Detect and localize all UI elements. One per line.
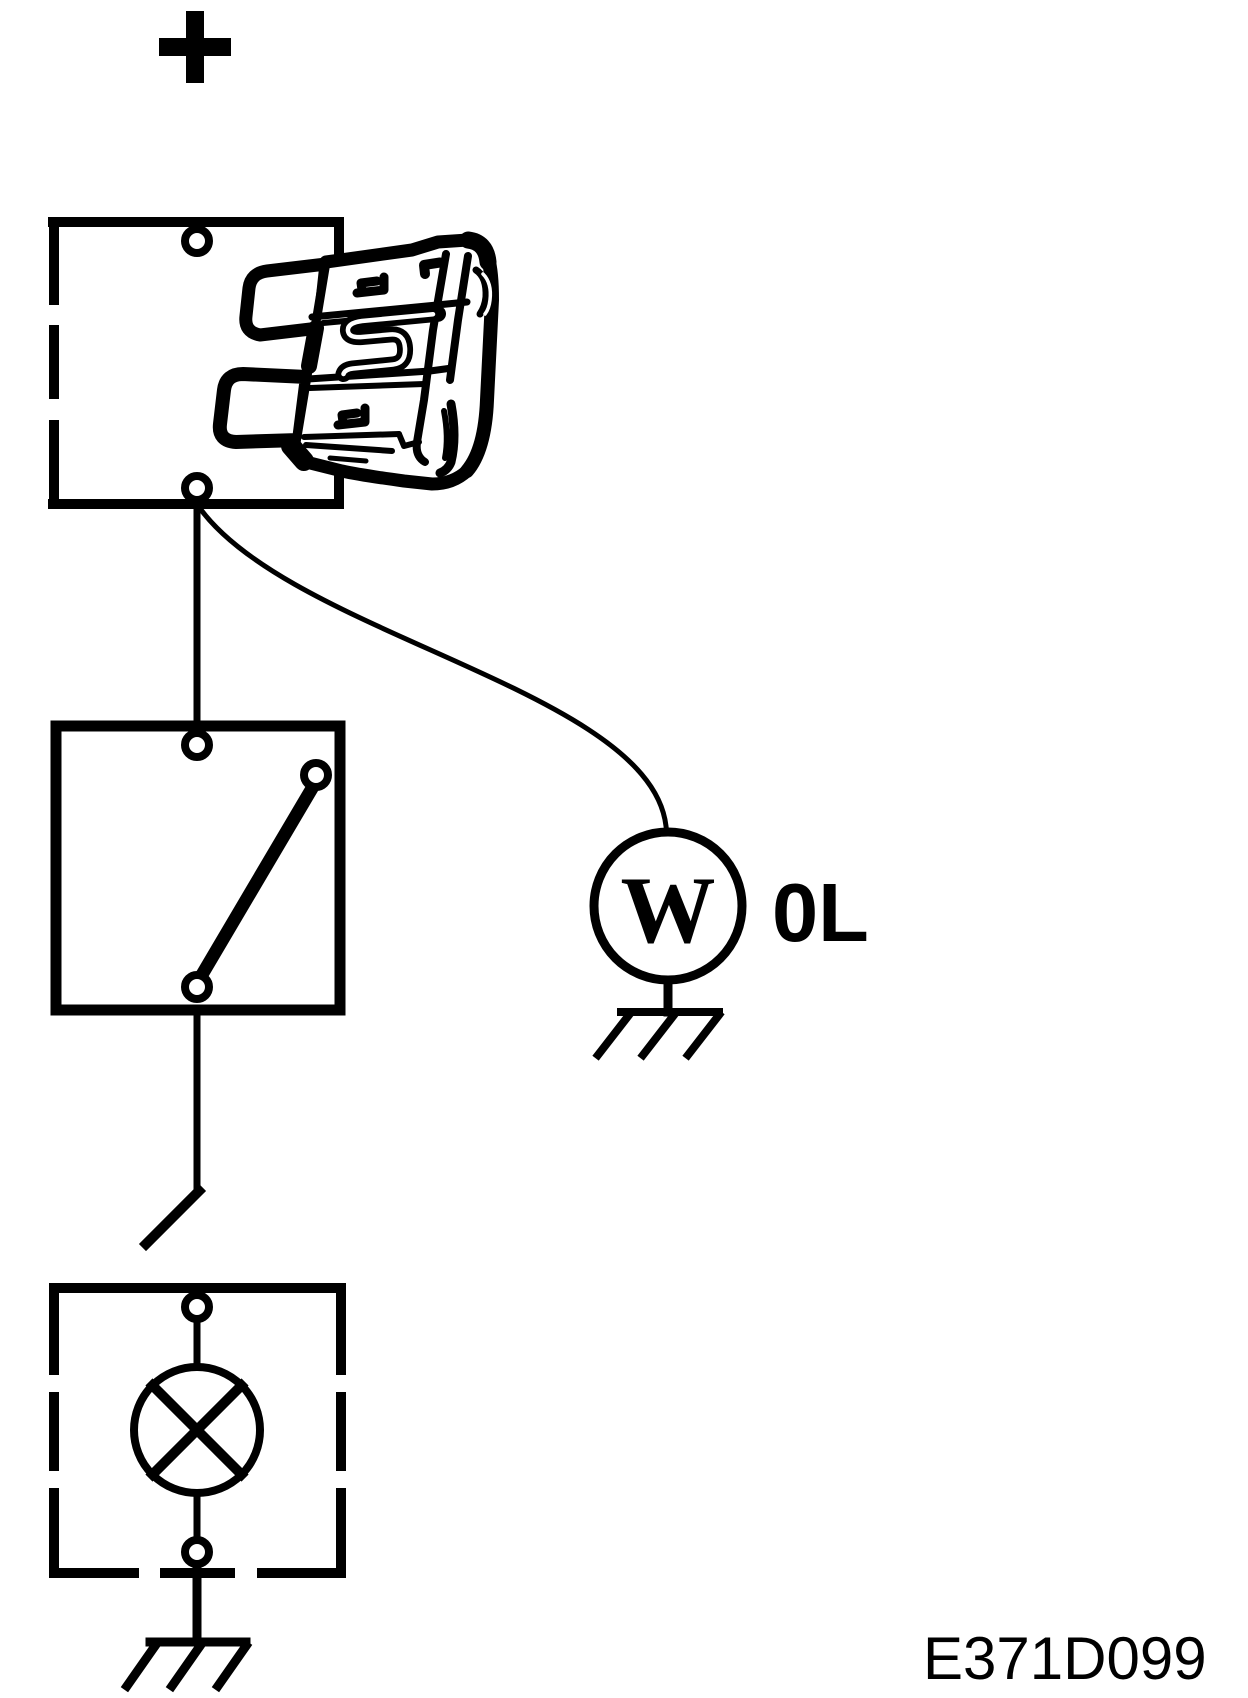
stamped mark upper (d) [357, 277, 384, 293]
fuse box edge top [48, 217, 343, 227]
fuse F (blade fuse pictorial) [220, 240, 492, 484]
connector half (open contact) [146, 1191, 199, 1244]
fuse element S ribbon core [344, 314, 434, 374]
top-right corner patch [468, 240, 488, 262]
label W inside gauge [618, 863, 718, 958]
node: switch bottom terminal [185, 975, 209, 999]
front-right face edge [417, 254, 446, 462]
ground (lamp) [127, 1642, 246, 1686]
junction blob lower prong to body [291, 446, 304, 461]
side face bottom hook inner [444, 411, 447, 458]
top-right small L mark [424, 263, 440, 275]
wire: switch to connector break [194, 1010, 201, 1192]
gauge W (warning lamp) [594, 832, 742, 980]
label E371D099 [923, 1629, 1207, 1689]
blade terminal lower (white fill) [220, 374, 307, 442]
window bottom band line a [308, 368, 452, 379]
fuse element S ribbon [344, 314, 439, 374]
blade terminal upper (white fill) [246, 264, 326, 335]
bottom band line b [306, 445, 392, 451]
window bottom band line b [310, 384, 424, 388]
bottom band line a [304, 434, 399, 437]
corner white sliver [483, 274, 490, 314]
side face bottom hook outer [440, 404, 454, 473]
lamp box edge bottom (dashed) [49, 1568, 346, 1578]
ground (gauge) [598, 1012, 719, 1055]
window top band line a [312, 302, 467, 317]
fuse box edge right (dashed) [334, 217, 344, 509]
lamp box edge left (dashed) [49, 1283, 59, 1578]
top-right corner inner crescent [476, 270, 486, 314]
window top band line b [323, 313, 433, 323]
fuse box edge bottom [48, 499, 343, 509]
node: switch NO contact [304, 763, 328, 787]
fuse body front-left edge [295, 262, 326, 449]
node: fuse box bottom terminal [185, 476, 209, 500]
fuse body top edge [326, 240, 488, 262]
fuse holder box (dashed) [48, 217, 343, 509]
bottom band dash [330, 458, 366, 461]
lamp box edge top [49, 1283, 346, 1293]
node: lamp box bottom terminal [185, 1540, 209, 1564]
side face inner contour [450, 256, 468, 380]
node: fuse box top terminal [185, 229, 209, 253]
battery positive terminal + [159, 11, 231, 83]
lamp box edge right (dashed) [336, 1283, 346, 1578]
node: switch top terminal [185, 733, 209, 757]
stamped mark lower (d) [338, 408, 365, 425]
wire: bulb to terminal [194, 1496, 201, 1537]
wire: lamp to ground [193, 1568, 202, 1642]
node: lamp box top terminal [185, 1295, 209, 1319]
switch lever [203, 790, 311, 973]
bottom tab notch [399, 434, 419, 446]
fuse body bottom edge [295, 449, 467, 484]
wire: terminal to bulb [194, 1323, 201, 1366]
wire: curved lead to gauge W [199, 507, 666, 826]
label 0L [772, 871, 869, 954]
wire: fuse box to switch [194, 504, 201, 722]
fuse body right outer edge [467, 258, 492, 471]
switch S1 box [56, 726, 340, 1010]
fuse body white backing [295, 240, 492, 484]
fuse box edge left (dashed) [49, 217, 59, 509]
lamp unit box (dashed) [49, 1283, 346, 1578]
wire: gauge to ground [664, 980, 673, 1012]
window left slot wedge [309, 328, 316, 366]
lamp L (bulb symbol) [134, 1367, 260, 1493]
